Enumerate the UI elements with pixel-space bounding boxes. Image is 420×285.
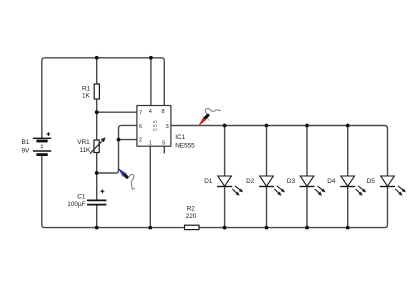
svg-text:D5: D5: [367, 178, 376, 185]
svg-text:9V: 9V: [22, 147, 31, 154]
junction D3 bottom: [305, 226, 309, 230]
svg-text:6: 6: [139, 124, 142, 130]
label B1: [22, 139, 30, 146]
resistor R1: [94, 84, 99, 99]
pin number 1: [149, 140, 152, 146]
wire C1 bottom to bottom rail: [96, 205, 98, 228]
wire R1 top: [96, 58, 98, 84]
LED D2: [259, 176, 285, 196]
pin number 4: [149, 109, 152, 115]
junction D1 top: [223, 124, 227, 128]
label D1: [204, 178, 213, 185]
LED D1: [217, 176, 243, 196]
label D4: [327, 178, 336, 185]
svg-text:NE555: NE555: [175, 142, 195, 149]
svg-text:2: 2: [139, 138, 142, 144]
junction pin 1 bottom rail: [148, 226, 152, 230]
label VR1: [77, 139, 90, 146]
junction C1 bottom rail: [95, 226, 99, 230]
label 220: [186, 213, 197, 220]
junction pin 4 top rail: [149, 56, 153, 60]
label D3: [287, 178, 296, 185]
LED D5: [380, 176, 406, 196]
pin number 5: [162, 140, 165, 146]
svg-text:R1: R1: [82, 85, 91, 92]
red probe on pin 3: [199, 108, 221, 125]
svg-text:8: 8: [162, 109, 165, 115]
resistor R2: [185, 225, 200, 229]
wire D3 column: [306, 126, 308, 228]
svg-text:B1: B1: [22, 139, 30, 146]
svg-text:555: 555: [153, 119, 159, 131]
junction D4 bottom: [346, 226, 350, 230]
svg-text:D3: D3: [287, 178, 296, 185]
label R2: [187, 205, 196, 212]
wire D4 column: [347, 126, 349, 228]
label 555 inside IC: [153, 119, 159, 131]
wire D2 column: [266, 126, 268, 228]
svg-text:1K: 1K: [82, 93, 91, 100]
op-amp IC1 NE555 body: [137, 106, 171, 147]
wire battery-to-top-rail and top rail to pin 8: [42, 58, 165, 139]
wire pin 7: [97, 111, 137, 113]
pin number 3: [166, 124, 169, 130]
wire pin 5 stub: [163, 146, 165, 153]
svg-text:IC1: IC1: [175, 134, 185, 141]
LED D3: [300, 176, 326, 196]
label 100uF: [67, 201, 85, 208]
junction D4 top: [346, 124, 350, 128]
junction pin 7 node: [95, 110, 99, 114]
wire pin 2: [119, 139, 137, 141]
label C1: [77, 193, 86, 200]
junction D2 bottom: [265, 226, 269, 230]
label 1K: [82, 93, 91, 100]
svg-text:100µF: 100µF: [67, 201, 85, 208]
svg-text:R2: R2: [187, 205, 196, 212]
svg-text:VR1: VR1: [77, 139, 90, 146]
capacitor C1: [87, 189, 106, 204]
pin number 6: [139, 124, 142, 130]
wire R1 bottom to VR1 top: [96, 99, 98, 140]
svg-text:1: 1: [149, 140, 152, 146]
svg-text:11K: 11K: [79, 147, 91, 154]
junction VR1-C1 node: [95, 171, 99, 175]
svg-text:5: 5: [162, 140, 165, 146]
pin number 2: [139, 138, 142, 144]
pin number 8: [162, 109, 165, 115]
junction D3 top: [305, 124, 309, 128]
label R1: [82, 85, 91, 92]
svg-text:220: 220: [186, 213, 197, 220]
svg-text:D4: D4: [327, 178, 336, 185]
label NE555: [175, 142, 195, 149]
blue probe on pins 2-6 net: [118, 168, 134, 189]
battery B1: [33, 132, 51, 154]
svg-text:3: 3: [166, 124, 169, 130]
label D2: [246, 178, 255, 185]
wire bottom rail right of R2 to right corner: [199, 187, 388, 228]
LED D4: [340, 176, 366, 196]
svg-text:7: 7: [139, 111, 142, 117]
svg-text:D2: D2: [246, 178, 255, 185]
svg-text:4: 4: [149, 109, 152, 115]
wire pins 2-6 node down to VR1 bottom node: [97, 140, 119, 173]
wire pin 1 to bottom rail: [149, 146, 151, 227]
junction D2 top: [265, 124, 269, 128]
label IC1: [175, 134, 185, 141]
pin number 7: [139, 111, 142, 117]
label D5: [367, 178, 376, 185]
wire battery-to-bottom-rail left segment: [42, 155, 185, 228]
junction pins 2-6 node: [117, 138, 121, 142]
label 9V: [22, 147, 31, 154]
wire pin 6: [119, 125, 137, 139]
wire pin 4: [150, 58, 152, 106]
junction D1 bottom: [223, 226, 227, 230]
svg-text:D1: D1: [204, 178, 213, 185]
junction R1 top rail: [95, 56, 99, 60]
wire D1 column: [224, 126, 226, 228]
wire VR1 bottom to C1 top: [96, 153, 98, 201]
label 11K: [79, 147, 91, 154]
wire pin 3 output and LED top rail: [171, 126, 388, 177]
potentiometer VR1: [90, 137, 106, 153]
svg-text:C1: C1: [77, 193, 86, 200]
